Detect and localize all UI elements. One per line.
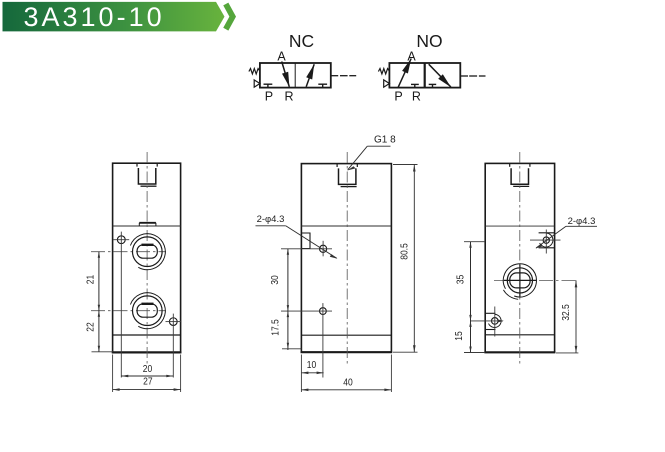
dimension 20 <box>121 363 173 377</box>
svg-text:20: 20 <box>143 363 152 374</box>
right view top-right notch <box>539 233 555 248</box>
side view upper hole <box>281 241 332 256</box>
right view port centerline <box>494 279 578 281</box>
dimension chain 21/22 line <box>92 252 114 352</box>
dimension 40 <box>301 355 391 393</box>
leader G1.8 <box>347 135 396 171</box>
svg-text:32.5: 32.5 <box>560 304 571 321</box>
svg-text:R: R <box>284 90 293 104</box>
svg-text:40: 40 <box>343 377 352 388</box>
leader 2-d4.3 middle <box>256 214 338 259</box>
svg-text:15: 15 <box>453 331 464 340</box>
right view vertical centerline <box>519 152 521 365</box>
dimension chain 35/15 line <box>464 242 485 353</box>
NC blocked port P <box>264 84 273 87</box>
side view section line lower <box>301 334 391 336</box>
port R centerline <box>91 310 166 312</box>
svg-text:NC: NC <box>289 31 314 51</box>
svg-text:10: 10 <box>307 360 316 371</box>
NO right cell arrow <box>429 64 451 87</box>
NC right cell blocked port <box>318 84 327 87</box>
front view bottom thick edge <box>112 351 182 353</box>
right view top-right hole <box>530 230 561 254</box>
port A centerline <box>91 251 166 253</box>
front view section line upper <box>113 225 181 227</box>
banner title bar <box>3 2 225 32</box>
mounting hole lower-right <box>166 314 182 378</box>
svg-text:2-φ4.3: 2-φ4.3 <box>257 214 285 225</box>
NO return spring <box>378 69 389 74</box>
svg-text:P: P <box>265 89 273 103</box>
svg-text:22: 22 <box>85 322 96 331</box>
NO valve body box <box>389 63 460 88</box>
port A (upper) <box>130 234 165 270</box>
banner chevron <box>226 4 233 29</box>
leader 2-d4.3 right <box>535 216 597 249</box>
dimension 27 <box>113 355 181 393</box>
svg-text:35: 35 <box>455 275 466 284</box>
NC flow arrow A to R <box>282 62 290 88</box>
front view section line lower <box>113 334 181 336</box>
svg-text:30: 30 <box>269 275 280 284</box>
svg-text:3A310-10: 3A310-10 <box>24 2 165 32</box>
NC valve body box <box>260 63 331 88</box>
right view body outline <box>485 163 554 352</box>
NC right cell arrow <box>306 64 314 86</box>
NO output dashed line <box>460 75 485 77</box>
dimension 32.5 <box>556 280 578 353</box>
side view section line upper <box>301 225 391 227</box>
right view bottom-left hole <box>471 307 504 337</box>
front view top cup (manual override) <box>137 163 157 186</box>
right view section line upper <box>485 225 554 227</box>
front view boss on section line <box>139 223 156 226</box>
dimension chain 30/17.5 line <box>282 249 301 350</box>
NO flow arrow P to A <box>398 59 411 88</box>
side view top cup <box>337 164 357 187</box>
NC pilot triangle <box>254 80 260 87</box>
right view top cup <box>510 163 530 186</box>
right view bottom-left notch <box>485 313 495 329</box>
NO blocked port R <box>411 84 419 87</box>
mounting hole upper-left <box>114 232 130 378</box>
svg-text:21: 21 <box>85 275 96 284</box>
front view vertical centerline <box>146 152 148 364</box>
dimension 80.5 <box>393 165 418 353</box>
svg-text:17.5: 17.5 <box>270 319 281 336</box>
NC cell divider <box>294 63 296 88</box>
side view boss square <box>301 233 310 249</box>
NO cell divider <box>424 63 426 88</box>
right view center port <box>503 264 536 299</box>
dimension 10 <box>301 360 323 375</box>
port R (lower) <box>130 293 165 329</box>
svg-text:27: 27 <box>143 376 152 387</box>
side view bottom thick edge <box>301 351 393 353</box>
NC return spring <box>249 69 260 74</box>
side view vertical centerline <box>346 152 348 364</box>
NO right cell blocked port <box>429 84 437 87</box>
svg-text:NO: NO <box>416 31 442 51</box>
svg-text:G1 8: G1 8 <box>374 135 396 146</box>
svg-text:80.5: 80.5 <box>399 243 410 260</box>
NC output dashed line <box>331 75 356 77</box>
front view body outline <box>113 163 181 352</box>
svg-text:R: R <box>412 90 421 104</box>
svg-text:A: A <box>407 50 416 64</box>
side view body outline <box>301 164 391 353</box>
side view lower hole <box>281 303 332 377</box>
right view section line lower <box>485 334 554 336</box>
NO pilot triangle <box>384 80 390 87</box>
svg-text:P: P <box>394 89 402 103</box>
svg-text:2-φ4.3: 2-φ4.3 <box>568 216 596 227</box>
right view bottom thick edge <box>484 351 555 353</box>
